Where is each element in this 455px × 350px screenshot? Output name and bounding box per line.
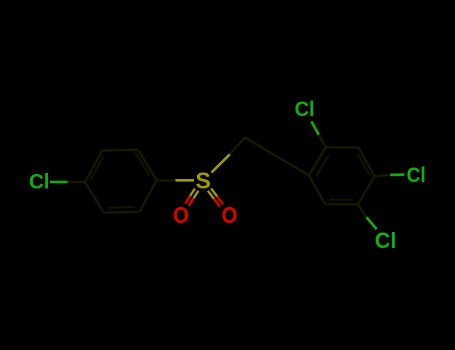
wire ring1 inner double bond TL-L [91, 156, 104, 180]
wire ring1 edge TL-L [85, 151, 102, 183]
bond Cl2-C2 carbon half (dark) [319, 135, 326, 147]
wire ring2 edge C1-C2 [309, 147, 326, 175]
double bond S=O left : line a sulfur half [190, 189, 195, 196]
svg-text:O: O [173, 202, 189, 228]
wire ring2 inner double bond C1-C2 [316, 155, 329, 177]
bond Cl5-C5 carbon half (dark) [358, 205, 367, 218]
wire ring2 edge C2-C3 [326, 146, 359, 149]
double bond S=O right : line b sulfur half [211, 188, 217, 196]
double bond S=O left : line b sulfur half [194, 191, 199, 199]
double bond S=O right : line a sulfur half [208, 191, 214, 199]
svg-text:Cl: Cl [407, 164, 426, 187]
wire ring1 edge TR-TL [102, 149, 138, 152]
bond S-CH2 sulfur half (olive) [212, 154, 230, 172]
bond Cl1-C(ring1 L) carbon half (dark) [68, 181, 86, 183]
bond Cl4-C4 chlorine half (green) [390, 173, 404, 176]
svg-text:Cl: Cl [29, 171, 50, 194]
wire ring2 edge C5-C6 [325, 203, 358, 206]
bond Cl5-C5 chlorine half (green) [366, 217, 376, 229]
bond Cl2-C2 chlorine half (green) [311, 121, 318, 134]
svg-text:Cl: Cl [375, 228, 397, 253]
svg-text:S: S [196, 168, 211, 194]
bond C(ring1 R)-S carbon half (dark) [157, 179, 176, 181]
double bond S=O left : line a oxygen half [185, 196, 190, 204]
double bond S=O right : line a oxygen half [214, 199, 220, 207]
wire ring1 edge L-BL [85, 182, 104, 213]
wire ring2 inner double bond C5-C6 [329, 199, 353, 201]
double bond S=O left : line b oxygen half [189, 198, 194, 205]
bond C(ring1 R)-S sulfur half (olive) [175, 179, 194, 182]
wire ring2 edge C4-C5 [358, 176, 375, 204]
wire ring2 inner double bond C3-C4 [358, 153, 370, 175]
wire ring2 edge C6-C1 [309, 175, 325, 204]
wire ring1 edge R-TR [138, 150, 157, 181]
double bond S=O right : line b oxygen half [217, 196, 223, 204]
bond S-CH2 carbon half (dark) [230, 138, 245, 155]
wire ring1 inner double bond R-TR [135, 153, 149, 176]
wire ring2 edge C3-C4 [359, 148, 375, 177]
svg-text:Cl: Cl [295, 98, 315, 121]
bond CH2-C1(ring2) [245, 138, 309, 176]
svg-text:O: O [222, 202, 238, 228]
bond Cl1-C(ring1 L) chlorine half (green) [50, 181, 68, 184]
wire ring1 edge BR-R [140, 180, 157, 212]
wire ring1 edge BL-BR [104, 211, 140, 214]
wire ring1 inner double bond BL-BR [108, 206, 135, 209]
bond Cl4-C4 carbon half (dark) [375, 175, 391, 176]
